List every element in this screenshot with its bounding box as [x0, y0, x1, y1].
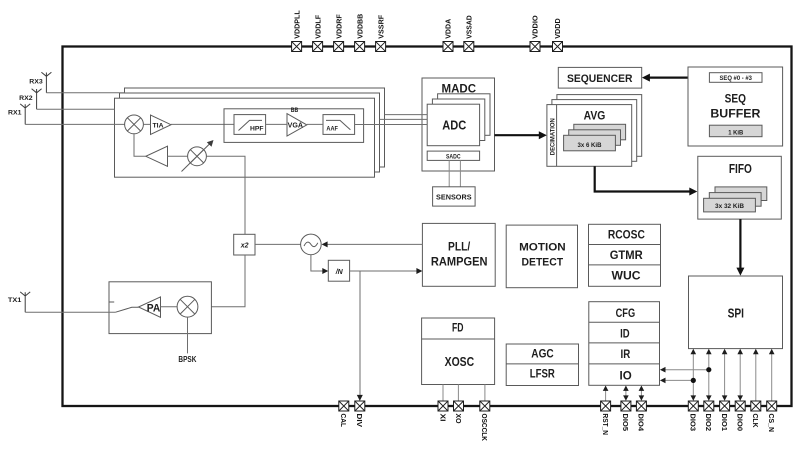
pin OSCCLK — [480, 401, 490, 442]
svg-text:VDDD: VDDD — [553, 18, 562, 39]
memory 3x6KiB back layer — [574, 124, 626, 140]
arrows DIO4 to IO block — [639, 386, 645, 401]
block PLL/RAMPGEN — [422, 223, 495, 286]
filter AAF — [323, 115, 355, 135]
svg-text:XOSC: XOSC — [445, 355, 475, 369]
pin DIO2 — [704, 401, 714, 431]
svg-text:VDDLF: VDDLF — [313, 14, 322, 38]
pin VSSRF — [376, 14, 386, 51]
pin RST_N — [601, 401, 611, 435]
arrows DIO3 to SPI — [691, 349, 697, 401]
memory 3x32KiB middle layer — [709, 193, 761, 207]
AVG front layer with DECIMATION strip — [547, 105, 632, 167]
svg-text:WUC: WUC — [612, 269, 641, 283]
wire feedback amp to variable mixer — [168, 155, 188, 157]
svg-text:VSSRF: VSSRF — [376, 14, 385, 38]
svg-text:VDDIO: VDDIO — [531, 15, 540, 39]
wires SADC to SENSORS — [449, 160, 460, 186]
svg-text:SPI: SPI — [728, 306, 744, 321]
multiplier x2 — [234, 234, 255, 255]
block SEQUENCER — [558, 67, 641, 88]
block FIFO — [698, 156, 782, 219]
svg-text:DIO3: DIO3 — [689, 414, 698, 432]
pin CS_N — [767, 401, 777, 432]
pin DIO4 — [636, 401, 646, 432]
pin VDDPLL — [292, 10, 302, 52]
pin VSSAD — [464, 15, 474, 52]
svg-text:SEQ #0 - #3: SEQ #0 - #3 — [719, 75, 752, 82]
TX mixer — [177, 296, 198, 317]
block RCOSC/GTMR/WUC — [589, 224, 661, 286]
pin DIO3 — [688, 401, 698, 431]
block MOTION DETECT — [506, 225, 577, 288]
svg-text:BUFFER: BUFFER — [710, 108, 761, 120]
svg-text:PA: PA — [147, 302, 161, 314]
svg-text:ADC: ADC — [442, 119, 466, 133]
wire RX3 to back layer — [46, 92, 124, 94]
arrow /N to PLL — [350, 268, 423, 274]
block SENSORS — [433, 187, 476, 206]
svg-text:SEQUENCER: SEQUENCER — [567, 73, 633, 85]
svg-text:DECIMATION: DECIMATION — [550, 118, 557, 155]
antenna RX3 — [29, 72, 51, 93]
svg-text:HPF: HPF — [250, 125, 264, 132]
pin VDDLF — [313, 14, 323, 51]
svg-text:SENSORS: SENSORS — [436, 193, 472, 202]
pin DIO5 — [621, 401, 631, 431]
baseband filter box — [224, 109, 364, 143]
oscillator — [301, 234, 322, 255]
pin CAL — [339, 401, 349, 427]
wire VGA to AAF — [307, 123, 323, 125]
memory 3x32KiB back layer — [715, 187, 767, 201]
wire HPF to VGA — [266, 123, 287, 125]
svg-text:RX2: RX2 — [19, 95, 33, 102]
pin DIV — [355, 401, 365, 427]
svg-text:SEQ: SEQ — [725, 93, 746, 105]
svg-text:CFG: CFG — [616, 306, 636, 320]
svg-text:RAMPGEN: RAMPGEN — [431, 256, 488, 268]
block FD/XOSC — [422, 318, 495, 385]
svg-text:AAF: AAF — [326, 125, 338, 132]
memory 3x32KiB front layer — [704, 198, 756, 212]
wire IO to DIO2 line with junction — [660, 367, 712, 373]
svg-text:LFSR: LFSR — [530, 369, 556, 381]
svg-text:CLK: CLK — [751, 414, 760, 429]
memory 3x6KiB front layer — [564, 135, 616, 151]
pin VDDIO — [530, 15, 540, 51]
TX switch — [109, 302, 139, 312]
svg-text:SADC: SADC — [446, 154, 461, 160]
svg-text:CS_N: CS_N — [767, 414, 776, 433]
svg-text:DIO0: DIO0 — [736, 414, 745, 432]
wire oscillator to divider /N — [311, 255, 328, 274]
pin VDDBB — [355, 13, 365, 51]
arrow CS_N to SPI — [769, 349, 775, 401]
svg-text:DETECT: DETECT — [522, 256, 564, 268]
svg-text:3x 32 KiB: 3x 32 KiB — [715, 203, 744, 210]
svg-text:FIFO: FIFO — [729, 162, 752, 176]
memory 3x6KiB middle layer — [569, 130, 621, 146]
svg-text:RX1: RX1 — [8, 109, 22, 116]
wires XOSC to XI XO OSCCLK pins — [443, 385, 485, 402]
svg-text:DIV: DIV — [355, 414, 364, 428]
arrow SEQ BUFFER to SEQUENCER — [642, 74, 688, 82]
svg-text:ID: ID — [620, 326, 630, 340]
svg-text:XO: XO — [454, 414, 463, 424]
svg-text:DIO4: DIO4 — [637, 414, 646, 432]
arrow ADC to AVG — [495, 131, 547, 139]
svg-text:x2: x2 — [240, 243, 249, 250]
wire middle layer to ADC — [380, 118, 428, 120]
pin XI — [438, 401, 448, 422]
svg-text:VDDPLL: VDDPLL — [292, 10, 301, 39]
block AGC/LFSR — [506, 344, 578, 386]
arrow CLK to SPI — [753, 349, 759, 401]
svg-text:VDDRF: VDDRF — [334, 14, 343, 39]
arrow RST_N to IO block — [603, 386, 609, 402]
svg-text:RCOSC: RCOSC — [608, 228, 645, 242]
pin XO — [454, 401, 464, 424]
svg-text:TIA: TIA — [153, 123, 165, 129]
wire RX1 to mixer — [25, 123, 125, 125]
TX front-end box — [109, 282, 211, 334]
wire x2 to oscillator — [255, 243, 301, 245]
svg-text:DIO1: DIO1 — [720, 414, 729, 432]
AVG stack back layer — [557, 95, 642, 157]
variable mixer (LO phase) — [182, 140, 214, 172]
ADC stack back layer — [438, 94, 490, 136]
wire LO to x2 multiplier — [206, 156, 245, 234]
wire TIA to filter box — [143, 123, 234, 125]
arrows DIO0 to SPI — [737, 349, 743, 401]
svg-text:CAL: CAL — [339, 414, 348, 428]
block SEQ BUFFER — [688, 67, 783, 146]
svg-text:VSSAD: VSSAD — [465, 15, 474, 39]
block CFG/ID/IR/IO — [589, 302, 660, 386]
arrow FIFO to SPI — [736, 219, 744, 276]
register SEQ #0 - #3 — [709, 73, 762, 83]
wire PA to TX mixer — [161, 306, 178, 308]
svg-text:OSCCLK: OSCCLK — [480, 414, 489, 442]
wire AVG to FIFO — [595, 166, 698, 195]
svg-text:3x 6 KiB: 3x 6 KiB — [578, 142, 602, 149]
svg-text:DIO5: DIO5 — [621, 414, 630, 432]
wire x2 to TX mixer — [198, 255, 245, 307]
pin DIO0 — [735, 401, 745, 431]
memory 1 KiB — [709, 125, 762, 137]
svg-text:1 KiB: 1 KiB — [728, 129, 743, 136]
svg-text:/N: /N — [335, 269, 344, 276]
wire AAF to ADC (front layer) — [355, 124, 428, 126]
svg-text:BB: BB — [291, 107, 299, 114]
pin VDDD — [553, 18, 563, 52]
svg-text:BPSK: BPSK — [178, 355, 196, 364]
amplifier PA — [139, 297, 161, 317]
block SADC — [427, 151, 479, 160]
arrow divider output to DIV pin — [357, 271, 363, 401]
antenna RX2 — [19, 89, 42, 110]
arrows DIO5 to IO block — [623, 386, 629, 401]
svg-text:IR: IR — [621, 347, 631, 361]
chip boundary frame — [63, 47, 792, 407]
svg-text:GTMR: GTMR — [610, 248, 643, 262]
svg-text:VGA: VGA — [288, 123, 303, 130]
arrows DIO2 to SPI — [706, 349, 712, 401]
AVG stack middle layer — [552, 100, 637, 162]
divider /N — [328, 260, 349, 281]
pin CLK — [751, 401, 761, 428]
pin DIO1 — [720, 401, 730, 431]
svg-text:VDDA: VDDA — [444, 18, 453, 39]
wire BPSK input — [178, 317, 196, 364]
arrow PLL to oscillator — [322, 241, 423, 247]
block SPI — [689, 276, 783, 349]
svg-text:AGC: AGC — [531, 349, 553, 361]
svg-text:DIO2: DIO2 — [704, 414, 713, 432]
svg-text:VDDBB: VDDBB — [355, 13, 364, 39]
block MADC — [422, 78, 495, 171]
svg-text:IO: IO — [620, 368, 632, 382]
svg-text:XI: XI — [438, 414, 447, 422]
amplifier BB VGA — [287, 107, 307, 136]
pin VDDA — [443, 18, 453, 51]
pin VDDRF — [334, 14, 344, 52]
arrows DIO1 to SPI — [722, 349, 728, 401]
antenna RX1 — [8, 104, 30, 125]
svg-text:TX1: TX1 — [8, 297, 22, 304]
RX front-end stacked box middle layer — [120, 93, 380, 172]
svg-text:AVG: AVG — [584, 108, 606, 122]
svg-text:FD: FD — [452, 323, 464, 335]
RX front-end stacked box front layer — [115, 98, 375, 177]
wire TX1 to switch — [25, 311, 115, 313]
wire back layer to ADC — [385, 114, 428, 116]
mixer (RX down-conversion) — [125, 115, 144, 134]
svg-text:RX3: RX3 — [29, 79, 43, 86]
amplifier TIA — [151, 115, 172, 135]
svg-text:PLL/: PLL/ — [448, 241, 471, 253]
antenna TX1 — [8, 292, 30, 312]
amplifier LO feedback — [146, 146, 168, 166]
ADC stack middle layer — [432, 99, 484, 141]
svg-text:RST_N: RST_N — [601, 414, 610, 436]
svg-text:MOTION: MOTION — [519, 242, 566, 254]
wire IO to DIO3 line with junction — [660, 378, 696, 384]
filter HPF — [234, 115, 266, 135]
wire RX2 to middle layer — [37, 108, 115, 110]
ADC front layer — [427, 104, 479, 146]
wire mixer to feedback amplifier — [134, 134, 146, 157]
RX front-end stacked box back layer — [125, 88, 385, 167]
